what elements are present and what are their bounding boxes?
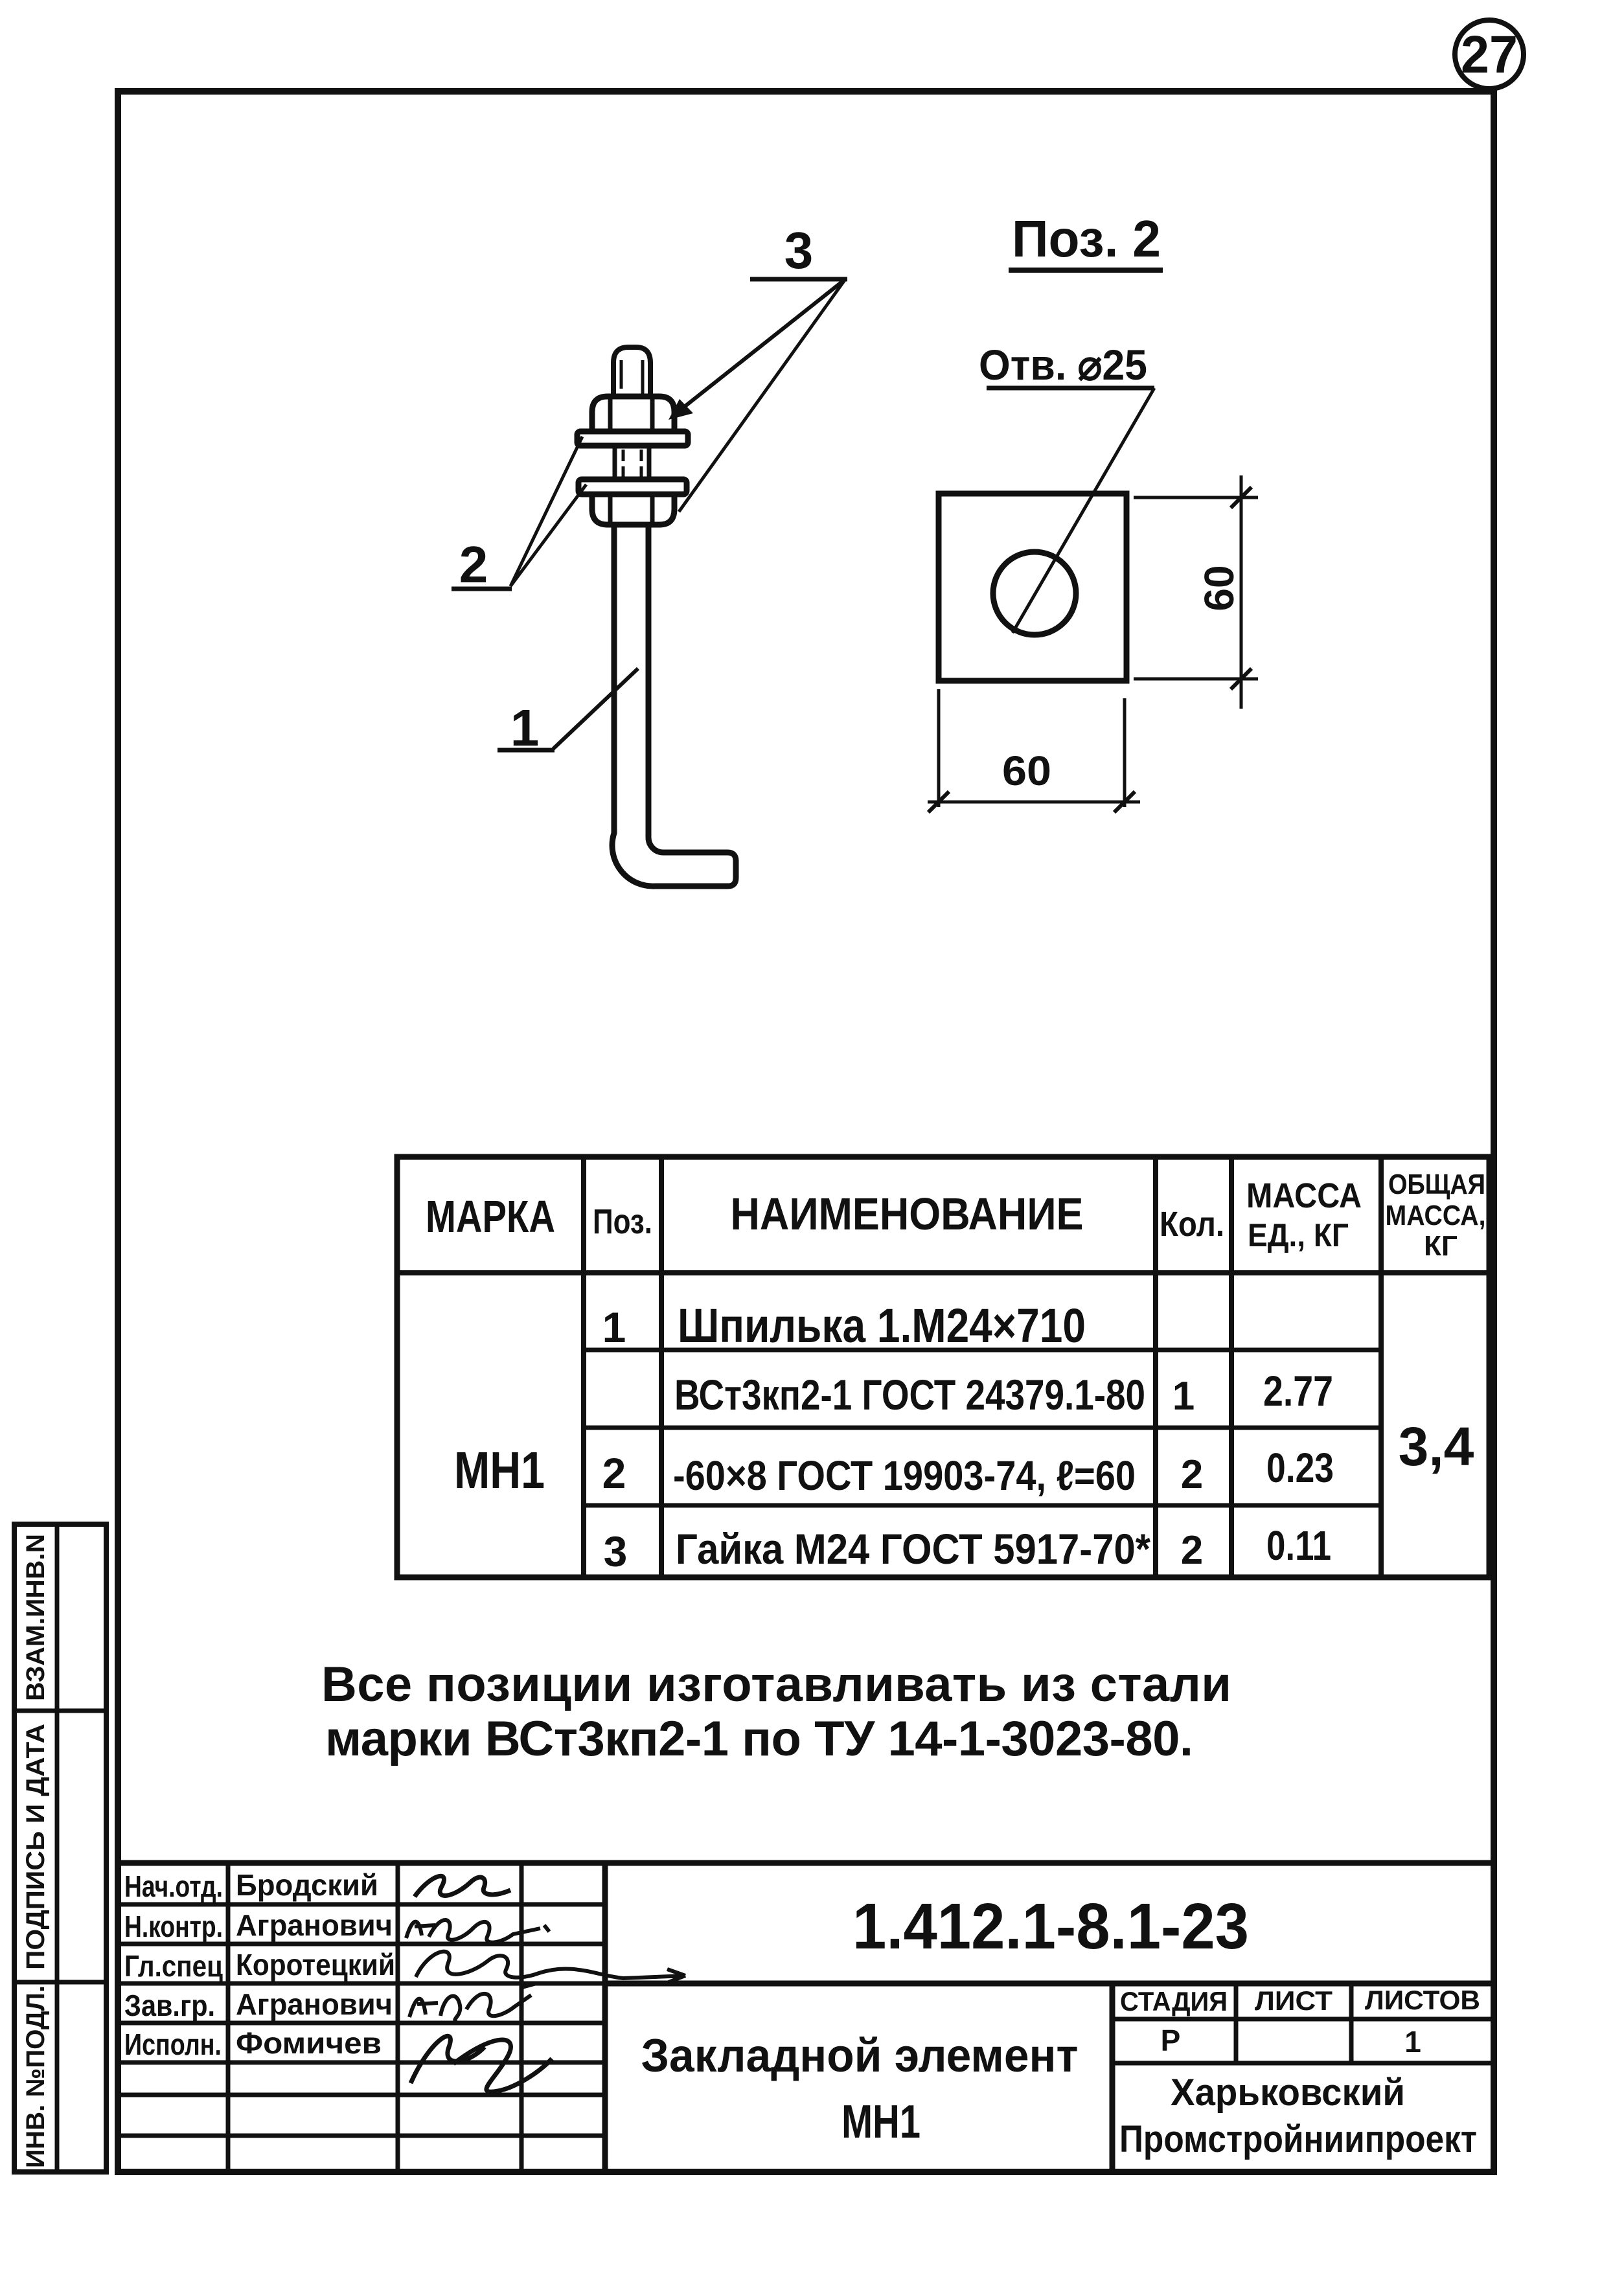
- nut item 3 lower: [592, 494, 674, 525]
- svg-text:ПОДПИСЬ И ДАТА: ПОДПИСЬ И ДАТА: [21, 1724, 50, 1970]
- nut item 3 upper: [592, 396, 674, 432]
- svg-text:Поз. 2: Поз. 2: [1012, 210, 1161, 268]
- specification table grid: [397, 1157, 1489, 1577]
- svg-text:Зав.гр.: Зав.гр.: [124, 1989, 215, 2022]
- svg-text:МАРКА: МАРКА: [426, 1191, 555, 1242]
- svg-text:МН1: МН1: [454, 1441, 545, 1499]
- svg-text:-60×8 ГОСТ 19903-74, ℓ=60: -60×8 ГОСТ 19903-74, ℓ=60: [673, 1452, 1136, 1499]
- hole callout Отв. ⌀25: [979, 341, 1154, 633]
- svg-text:Н.контр.: Н.контр.: [124, 1910, 223, 1943]
- svg-text:ВЗАМ.ИНВ.N: ВЗАМ.ИНВ.N: [21, 1534, 50, 1701]
- svg-text:1: 1: [602, 1303, 626, 1351]
- signature table grid: [118, 1863, 605, 2172]
- svg-text:Нач.отд.: Нач.отд.: [124, 1869, 223, 1903]
- svg-text:Агранович: Агранович: [236, 1987, 393, 2021]
- material note line 1: [321, 1657, 1231, 1712]
- svg-text:27: 27: [1461, 25, 1518, 84]
- signature squiggle Бродский: [415, 1876, 510, 1897]
- signature squiggle Фомичев: [411, 2036, 552, 2092]
- organization name: [1119, 2072, 1477, 2160]
- svg-text:Промстройниипроект: Промстройниипроект: [1119, 2118, 1477, 2160]
- svg-text:2: 2: [1181, 1528, 1203, 1573]
- signature squiggle Гл.спец Коротецкий with arrow: [416, 1952, 685, 1982]
- svg-text:3: 3: [604, 1527, 628, 1575]
- left margin strip boxes: [14, 1524, 106, 2172]
- svg-text:ЛИСТОВ: ЛИСТОВ: [1365, 1985, 1480, 2015]
- svg-text:1.412.1-8.1-23: 1.412.1-8.1-23: [852, 1890, 1249, 1963]
- svg-text:СТАДИЯ: СТАДИЯ: [1120, 1986, 1228, 2016]
- svg-text:ОБЩАЯ: ОБЩАЯ: [1388, 1169, 1485, 1200]
- signature rows texts: [124, 1868, 395, 2061]
- svg-text:0.23: 0.23: [1266, 1445, 1334, 1491]
- svg-text:Р: Р: [1161, 2024, 1181, 2057]
- svg-text:МАССА,: МАССА,: [1386, 1200, 1486, 1231]
- sheet number circle 27: [1455, 20, 1524, 89]
- svg-text:3,4: 3,4: [1399, 1416, 1474, 1477]
- row 1 stud: [602, 1299, 1086, 1353]
- label 2 with leaders to both washers: [452, 437, 586, 593]
- svg-text:Закладной элемент: Закладной элемент: [641, 2030, 1079, 2082]
- vertical label Взам. инв. N: [21, 1534, 50, 1701]
- plate item 2 square: [939, 494, 1127, 681]
- hole circle: [993, 552, 1076, 635]
- svg-text:60: 60: [1002, 748, 1051, 794]
- title block divider: [605, 1983, 1494, 2172]
- row 3 plate: [602, 1445, 1334, 1499]
- sheet frame: [118, 91, 1494, 2172]
- signature squiggle Н.контр Агранович: [406, 1920, 549, 1943]
- material note line 2: [325, 1711, 1193, 1766]
- svg-text:Харьковский: Харьковский: [1171, 2072, 1405, 2114]
- stud item 1 : top cap: [613, 347, 650, 398]
- svg-text:МН1: МН1: [841, 2096, 921, 2148]
- svg-text:Исполн.: Исполн.: [124, 2027, 222, 2061]
- svg-text:Гайка М24 ГОСТ 5917-70*: Гайка М24 ГОСТ 5917-70*: [676, 1525, 1150, 1573]
- table header texts: [426, 1169, 1486, 1262]
- stud item 1 : section between washers: [615, 446, 649, 479]
- vertical dimension 60: [1134, 475, 1258, 709]
- svg-text:ЕД., КГ: ЕД., КГ: [1248, 1217, 1349, 1253]
- svg-text:Отв. ⌀25: Отв. ⌀25: [979, 341, 1147, 389]
- svg-text:Фомичев: Фомичев: [236, 2026, 382, 2060]
- svg-text:3: 3: [784, 222, 814, 279]
- mark MH1: [454, 1441, 545, 1499]
- svg-text:Все позиции изготавливать из с: Все позиции изготавливать из стали: [321, 1657, 1231, 1712]
- svg-text:НАИМЕНОВАНИЕ: НАИМЕНОВАНИЕ: [731, 1189, 1084, 1239]
- view title Поз. 2: [1009, 210, 1163, 270]
- svg-text:КГ: КГ: [1424, 1230, 1458, 1262]
- svg-text:ВСт3кп2-1 ГОСТ 24379.1-80: ВСт3кп2-1 ГОСТ 24379.1-80: [674, 1371, 1145, 1419]
- svg-text:Бродский: Бродский: [236, 1868, 378, 1902]
- label 3 with leaders to both nuts: [669, 222, 847, 512]
- vertical label Инв. № подл.: [21, 1985, 50, 2168]
- drawing title Закладной элемент МН1: [641, 2030, 1079, 2148]
- title block outer lines: [118, 1863, 1494, 2172]
- svg-text:Поз.: Поз.: [593, 1202, 652, 1241]
- svg-text:2: 2: [602, 1449, 626, 1497]
- svg-text:1: 1: [1404, 2025, 1421, 2059]
- svg-text:марки ВСт3кп2-1 по ТУ 14-1-302: марки ВСт3кп2-1 по ТУ 14-1-3023-80.: [325, 1711, 1193, 1766]
- svg-text:1: 1: [1172, 1374, 1195, 1419]
- svg-text:Шпилька 1.М24×710: Шпилька 1.М24×710: [678, 1299, 1086, 1353]
- svg-text:МАССА: МАССА: [1246, 1176, 1362, 1215]
- svg-text:ИНВ. №ПОДЛ.: ИНВ. №ПОДЛ.: [21, 1985, 50, 2168]
- horizontal dimension 60: [928, 689, 1140, 812]
- row 2 steel grade: [674, 1367, 1333, 1419]
- vertical label Подпись и дата: [21, 1724, 50, 1970]
- stage list cells: [1112, 1983, 1494, 2063]
- label 1 with leader to shank: [497, 668, 638, 757]
- svg-text:2: 2: [1181, 1452, 1203, 1497]
- svg-text:Гл.спец: Гл.спец: [124, 1949, 223, 1983]
- svg-text:ЛИСТ: ЛИСТ: [1255, 1985, 1332, 2016]
- total mass 3,4: [1399, 1416, 1474, 1477]
- svg-text:0.11: 0.11: [1266, 1522, 1331, 1569]
- washer item 2 upper: [577, 431, 688, 446]
- row 4 nut: [604, 1522, 1331, 1575]
- svg-text:2.77: 2.77: [1263, 1367, 1333, 1415]
- svg-text:2: 2: [459, 536, 488, 593]
- signature squiggle Зав.гр Агранович: [409, 1983, 536, 2022]
- stud item 1 : bent shank: [612, 525, 736, 886]
- document number 1.412.1-8.1-23: [852, 1890, 1249, 1963]
- svg-text:Кол.: Кол.: [1160, 1205, 1224, 1244]
- svg-text:Агранович: Агранович: [236, 1908, 393, 1942]
- svg-text:60: 60: [1196, 565, 1242, 611]
- washer item 2 lower: [578, 479, 687, 494]
- svg-text:Коротецкий: Коротецкий: [236, 1948, 395, 1981]
